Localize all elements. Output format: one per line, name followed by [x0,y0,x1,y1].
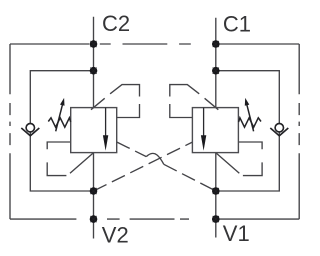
svg-text:V1: V1 [223,221,250,246]
svg-text:C1: C1 [223,11,251,36]
svg-text:V2: V2 [102,222,129,247]
svg-text:C2: C2 [102,11,130,36]
